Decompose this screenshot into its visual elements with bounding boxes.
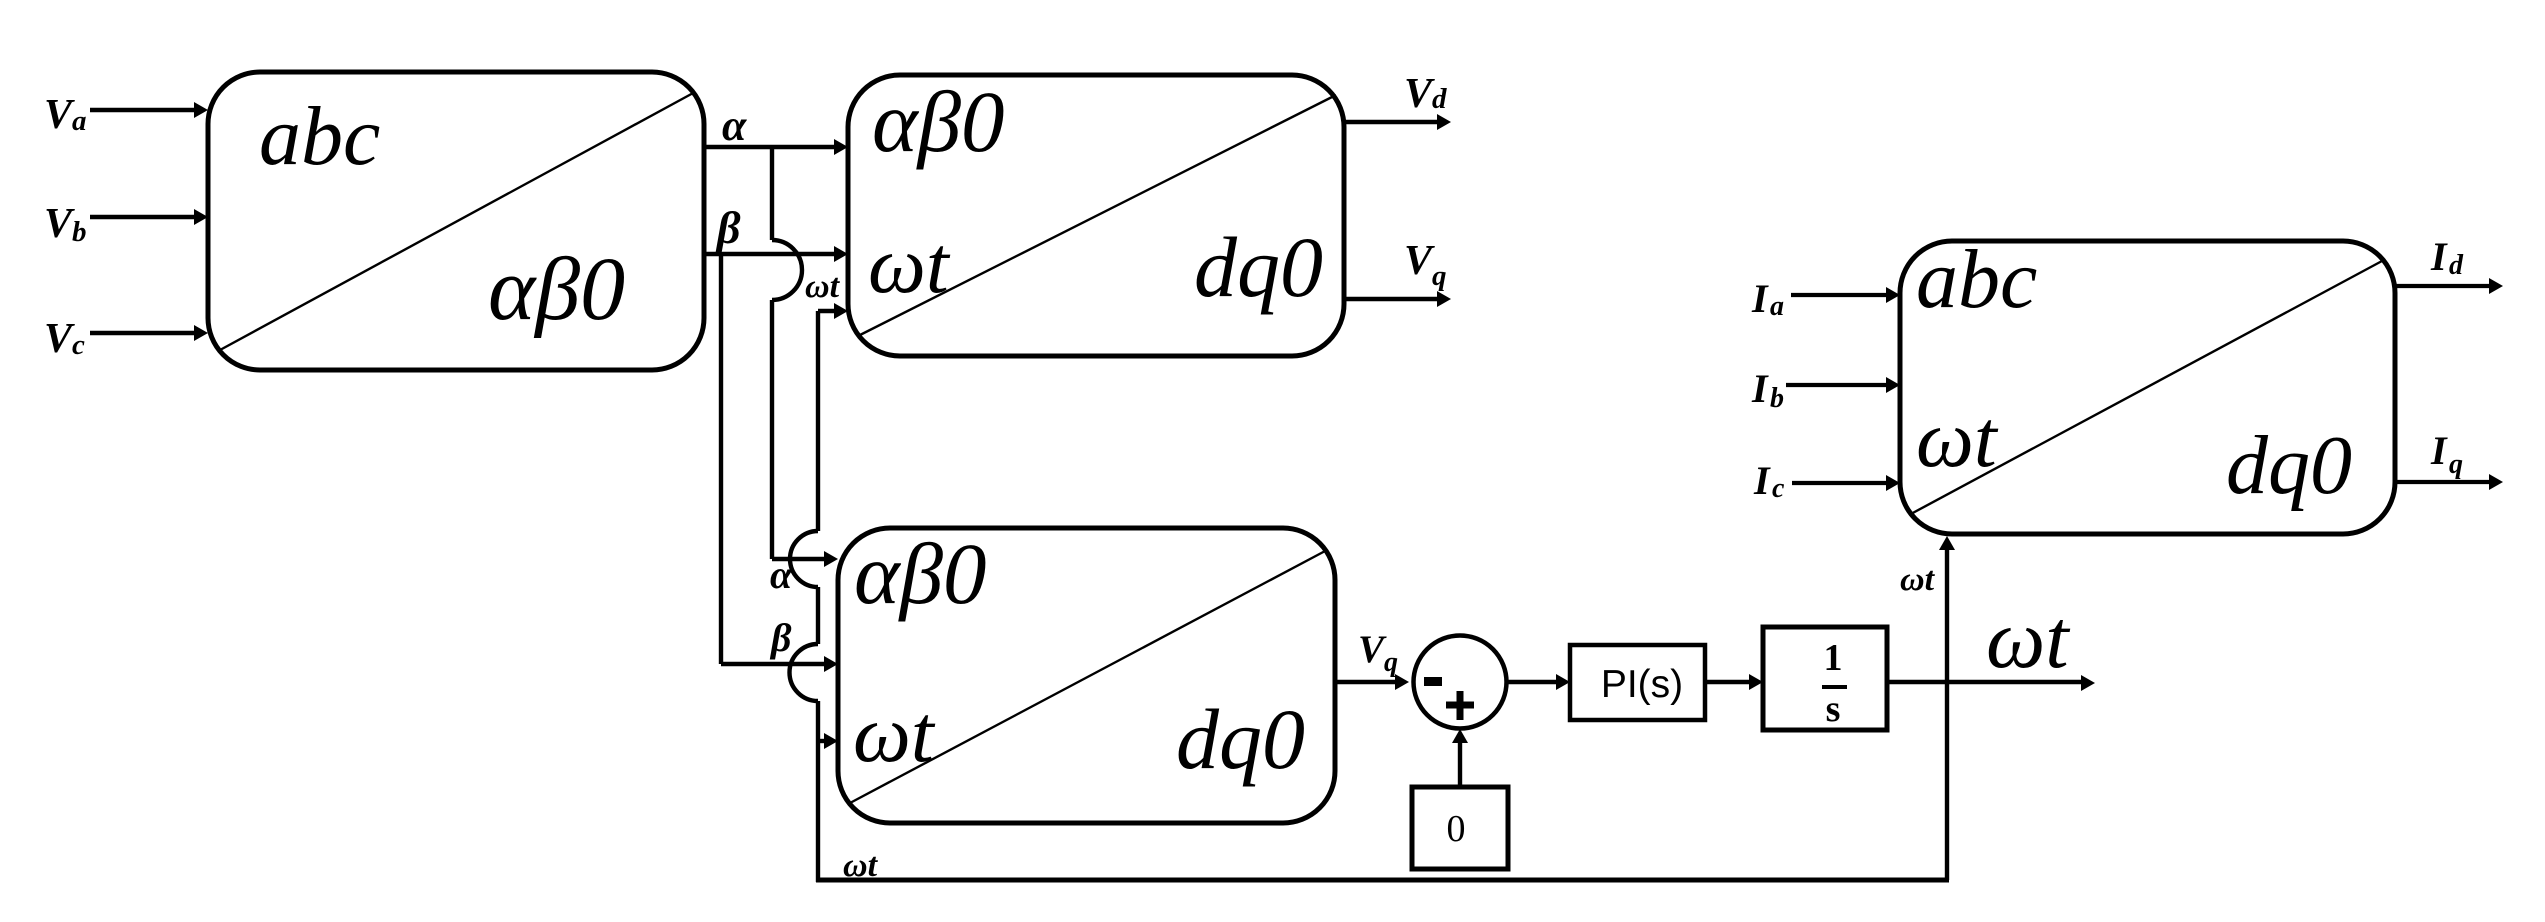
svg-text:ωt: ωt (868, 219, 951, 310)
svg-text:αβ0: αβ0 (872, 73, 1005, 170)
svg-text:1: 1 (1824, 637, 1843, 679)
svg-text:ωt: ωt (1986, 593, 2071, 686)
svg-text:dq0: dq0 (1194, 219, 1323, 315)
wire Ib input (1786, 377, 1900, 393)
label Id (2430, 234, 2464, 281)
svg-text:V: V (44, 316, 75, 362)
wire omega-t feedback net (vertical riser, hops, taps) (790, 303, 1956, 882)
svg-text:ωt: ωt (1900, 561, 1936, 598)
svg-text:I: I (1753, 458, 1771, 503)
svg-text:V: V (1404, 71, 1435, 117)
svg-text:V: V (1358, 628, 1387, 671)
svg-text:a: a (1770, 291, 1784, 322)
svg-text:V: V (44, 92, 75, 138)
wire alpha net from U1 to U2 with branch down to U3 (704, 139, 848, 567)
svg-text:c: c (1772, 473, 1785, 504)
wire Vq from U3 to summing junction (1335, 674, 1409, 690)
svg-text:0: 0 (1447, 808, 1466, 850)
label Iq (2430, 428, 2463, 480)
svg-text:ωt: ωt (853, 688, 936, 779)
summing junction S1 (1414, 636, 1507, 729)
block constant 0 (1412, 787, 1508, 869)
svg-text:q: q (2449, 449, 2463, 480)
wire Vb input (90, 209, 208, 225)
svg-text:d: d (2449, 250, 2464, 281)
svg-text:I: I (1751, 366, 1769, 411)
svg-text:s: s (1826, 688, 1841, 730)
wire Va input (90, 102, 208, 118)
block U3 alphabeta0->dq0 (bottom-middle Park transform) (838, 525, 1335, 823)
svg-text:dq0: dq0 (1176, 691, 1305, 787)
svg-text:I: I (2430, 234, 2448, 279)
svg-text:ωt: ωt (1916, 393, 1999, 484)
wire Vq output of U2 (1344, 291, 1451, 307)
svg-text:αβ0: αβ0 (488, 240, 625, 339)
svg-text:β: β (715, 202, 741, 253)
label Vb (44, 201, 87, 248)
svg-text:β: β (769, 615, 792, 660)
label Ib (1751, 366, 1784, 414)
block U1 abc->alphabeta0 (top-left Clarke transform) (208, 72, 704, 370)
wire Ia input (1791, 287, 1900, 303)
svg-text:αβ0: αβ0 (854, 525, 987, 622)
label Vc (44, 316, 85, 362)
svg-text:b: b (1770, 383, 1784, 414)
svg-text:q: q (1384, 647, 1398, 678)
svg-text:abc: abc (259, 90, 380, 183)
block U2 alphabeta0->dq0 (top-middle Park transform) (848, 73, 1344, 356)
svg-text:dq0: dq0 (2226, 419, 2352, 512)
wire Id output (2395, 278, 2503, 294)
wire 0 to summing junction plus input (1452, 729, 1468, 787)
label Vq (U2 output) (1404, 238, 1447, 292)
wire Vd output (1344, 114, 1451, 130)
svg-text:ωt: ωt (805, 268, 841, 305)
block PI(s) controller (1570, 645, 1705, 720)
wire PI(s) to integrator (1705, 674, 1763, 690)
svg-text:d: d (1432, 83, 1447, 115)
wire Ic input (1792, 475, 1900, 491)
wire Vc input (90, 325, 208, 341)
svg-text:abc: abc (1916, 233, 2037, 326)
svg-text:ωt: ωt (843, 847, 879, 884)
block integrator 1/s (1763, 627, 1887, 730)
svg-text:V: V (1404, 238, 1435, 284)
wire omega-t output of integrator (1887, 675, 2095, 691)
wire Iq output (2395, 474, 2503, 490)
label Va (44, 92, 87, 138)
svg-text:q: q (1432, 260, 1447, 292)
svg-text:I: I (1751, 276, 1769, 321)
svg-text:c: c (72, 329, 85, 361)
svg-text:α: α (722, 101, 747, 150)
label Vd (1404, 71, 1447, 117)
label Ia (1751, 276, 1784, 322)
svg-text:V: V (44, 201, 75, 247)
svg-text:b: b (72, 216, 87, 248)
svg-text:PI(s): PI(s) (1601, 663, 1683, 706)
wire beta net from U1 to U2 with branch down to U3 (704, 246, 848, 672)
label Vq (U3 output) (1358, 628, 1398, 678)
svg-text:a: a (72, 105, 87, 137)
label Ic (1753, 458, 1785, 504)
svg-text:I: I (2430, 428, 2448, 473)
wire summing junction to PI(s) (1507, 674, 1570, 690)
block U4 abc->dq0 (right Park transform) (1900, 233, 2395, 534)
